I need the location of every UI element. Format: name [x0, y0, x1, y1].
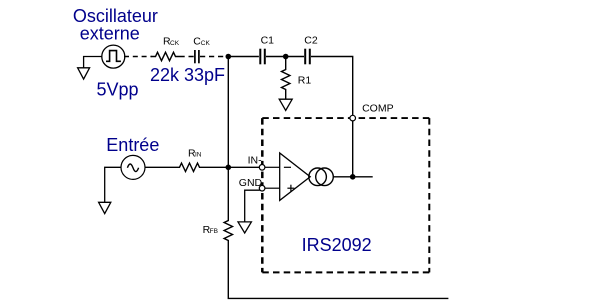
label Rfb	[203, 224, 218, 236]
capacitor C2	[305, 49, 310, 65]
svg-text:CK: CK	[170, 40, 180, 47]
wire Rin to IN- pin	[204, 166, 260, 168]
svg-text:CK: CK	[201, 40, 211, 47]
resistor Rck	[152, 52, 180, 60]
main vertical wire	[227, 57, 229, 219]
label Rck	[163, 36, 180, 48]
wire dashed source to Rck	[124, 56, 152, 58]
ground	[238, 222, 251, 233]
wire node to C1	[228, 56, 259, 58]
pulse source V1	[102, 45, 125, 68]
svg-text:externe: externe	[80, 23, 140, 43]
ground	[99, 202, 111, 213]
wire sine source to ground	[105, 167, 122, 202]
svg-text:Entrée: Entrée	[106, 135, 159, 155]
wire dashed Rck to Cck	[180, 56, 194, 58]
wire C1 to node2	[266, 56, 286, 58]
svg-text:IN-: IN-	[248, 155, 263, 167]
label Rin	[188, 147, 202, 159]
wire source to ground	[84, 57, 102, 68]
junction node2	[283, 54, 289, 60]
resistor R1	[282, 59, 290, 99]
wire GND to op-amp	[265, 187, 280, 189]
sine source V2	[121, 155, 145, 179]
svg-text:FB: FB	[210, 228, 218, 235]
svg-text:GND: GND	[239, 177, 263, 189]
wire GND pin to ground	[245, 190, 260, 222]
pin GND	[259, 185, 265, 191]
label Oscillateur externe	[73, 6, 158, 43]
capacitor Cck	[195, 50, 199, 63]
svg-text:IRS2092: IRS2092	[302, 235, 372, 255]
wire COMP down to output node	[352, 121, 354, 177]
svg-text:22k 33pF: 22k 33pF	[150, 65, 225, 85]
plus input mark	[287, 185, 294, 192]
junction output node	[350, 174, 356, 180]
wire dashed Cck to node	[200, 56, 226, 58]
junction input node	[226, 165, 232, 171]
resistor Rin	[176, 163, 204, 171]
junction node top	[226, 54, 232, 60]
svg-text:IN: IN	[195, 152, 202, 159]
minus input mark	[284, 166, 291, 168]
label Cck	[193, 36, 210, 48]
current source symbol	[309, 168, 334, 186]
wire IN- to op-amp	[265, 166, 280, 168]
pin IN-	[259, 165, 265, 171]
wire Rfb to bottom feedback line	[228, 243, 448, 299]
svg-text:C2: C2	[304, 35, 318, 47]
svg-text:COMP: COMP	[362, 103, 394, 115]
node COMP	[350, 115, 356, 121]
resistor Rfb	[224, 219, 232, 243]
svg-text:R1: R1	[298, 75, 312, 87]
ground below R1	[279, 99, 292, 110]
ground	[78, 68, 90, 79]
dashed box IRS2092	[262, 118, 429, 272]
svg-text:C1: C1	[261, 35, 275, 47]
capacitor C1	[260, 49, 265, 65]
wire sine source to Rin	[145, 166, 176, 168]
op-amp comparator U1	[280, 153, 311, 200]
wire node2 to C2	[286, 56, 304, 58]
svg-text:5Vpp: 5Vpp	[97, 79, 139, 99]
wire current source to output	[333, 176, 372, 178]
wire C2 to COMP corner	[311, 57, 353, 116]
